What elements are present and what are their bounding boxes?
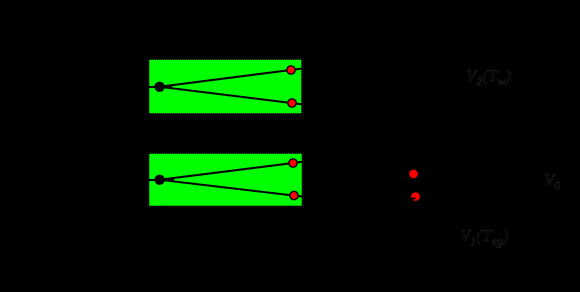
reservoir box bottom (green dotted rectangle) xyxy=(149,154,302,207)
wire: bottom box lower fan line xyxy=(160,180,302,197)
node: free lower red dot xyxy=(411,192,420,201)
wire: left stub into bottom box xyxy=(149,179,160,181)
node: free upper red dot xyxy=(409,170,418,179)
wire: line crossing free lower red dot xyxy=(404,198,416,200)
wire: bottom box horizontal stub xyxy=(160,179,174,181)
wire: top box upper fan line xyxy=(160,69,302,87)
node: bottom box upper red dot xyxy=(289,159,297,167)
node: top box upper red dot xyxy=(287,66,295,74)
svg-text:V2(Tw): V2(Tw) xyxy=(466,66,512,88)
wire: top box horizontal stub xyxy=(160,86,172,88)
wire: bottom box upper fan line xyxy=(160,162,302,180)
wire: top box lower fan line xyxy=(160,87,302,104)
node: bottom box lower red dot xyxy=(290,191,298,199)
node: top box lower red dot xyxy=(288,99,296,107)
reservoir box top (green dotted rectangle) xyxy=(149,60,302,114)
wire: left stub into top box xyxy=(149,86,160,88)
node: top box black dot xyxy=(154,82,164,92)
node: bottom box black dot xyxy=(154,175,164,185)
